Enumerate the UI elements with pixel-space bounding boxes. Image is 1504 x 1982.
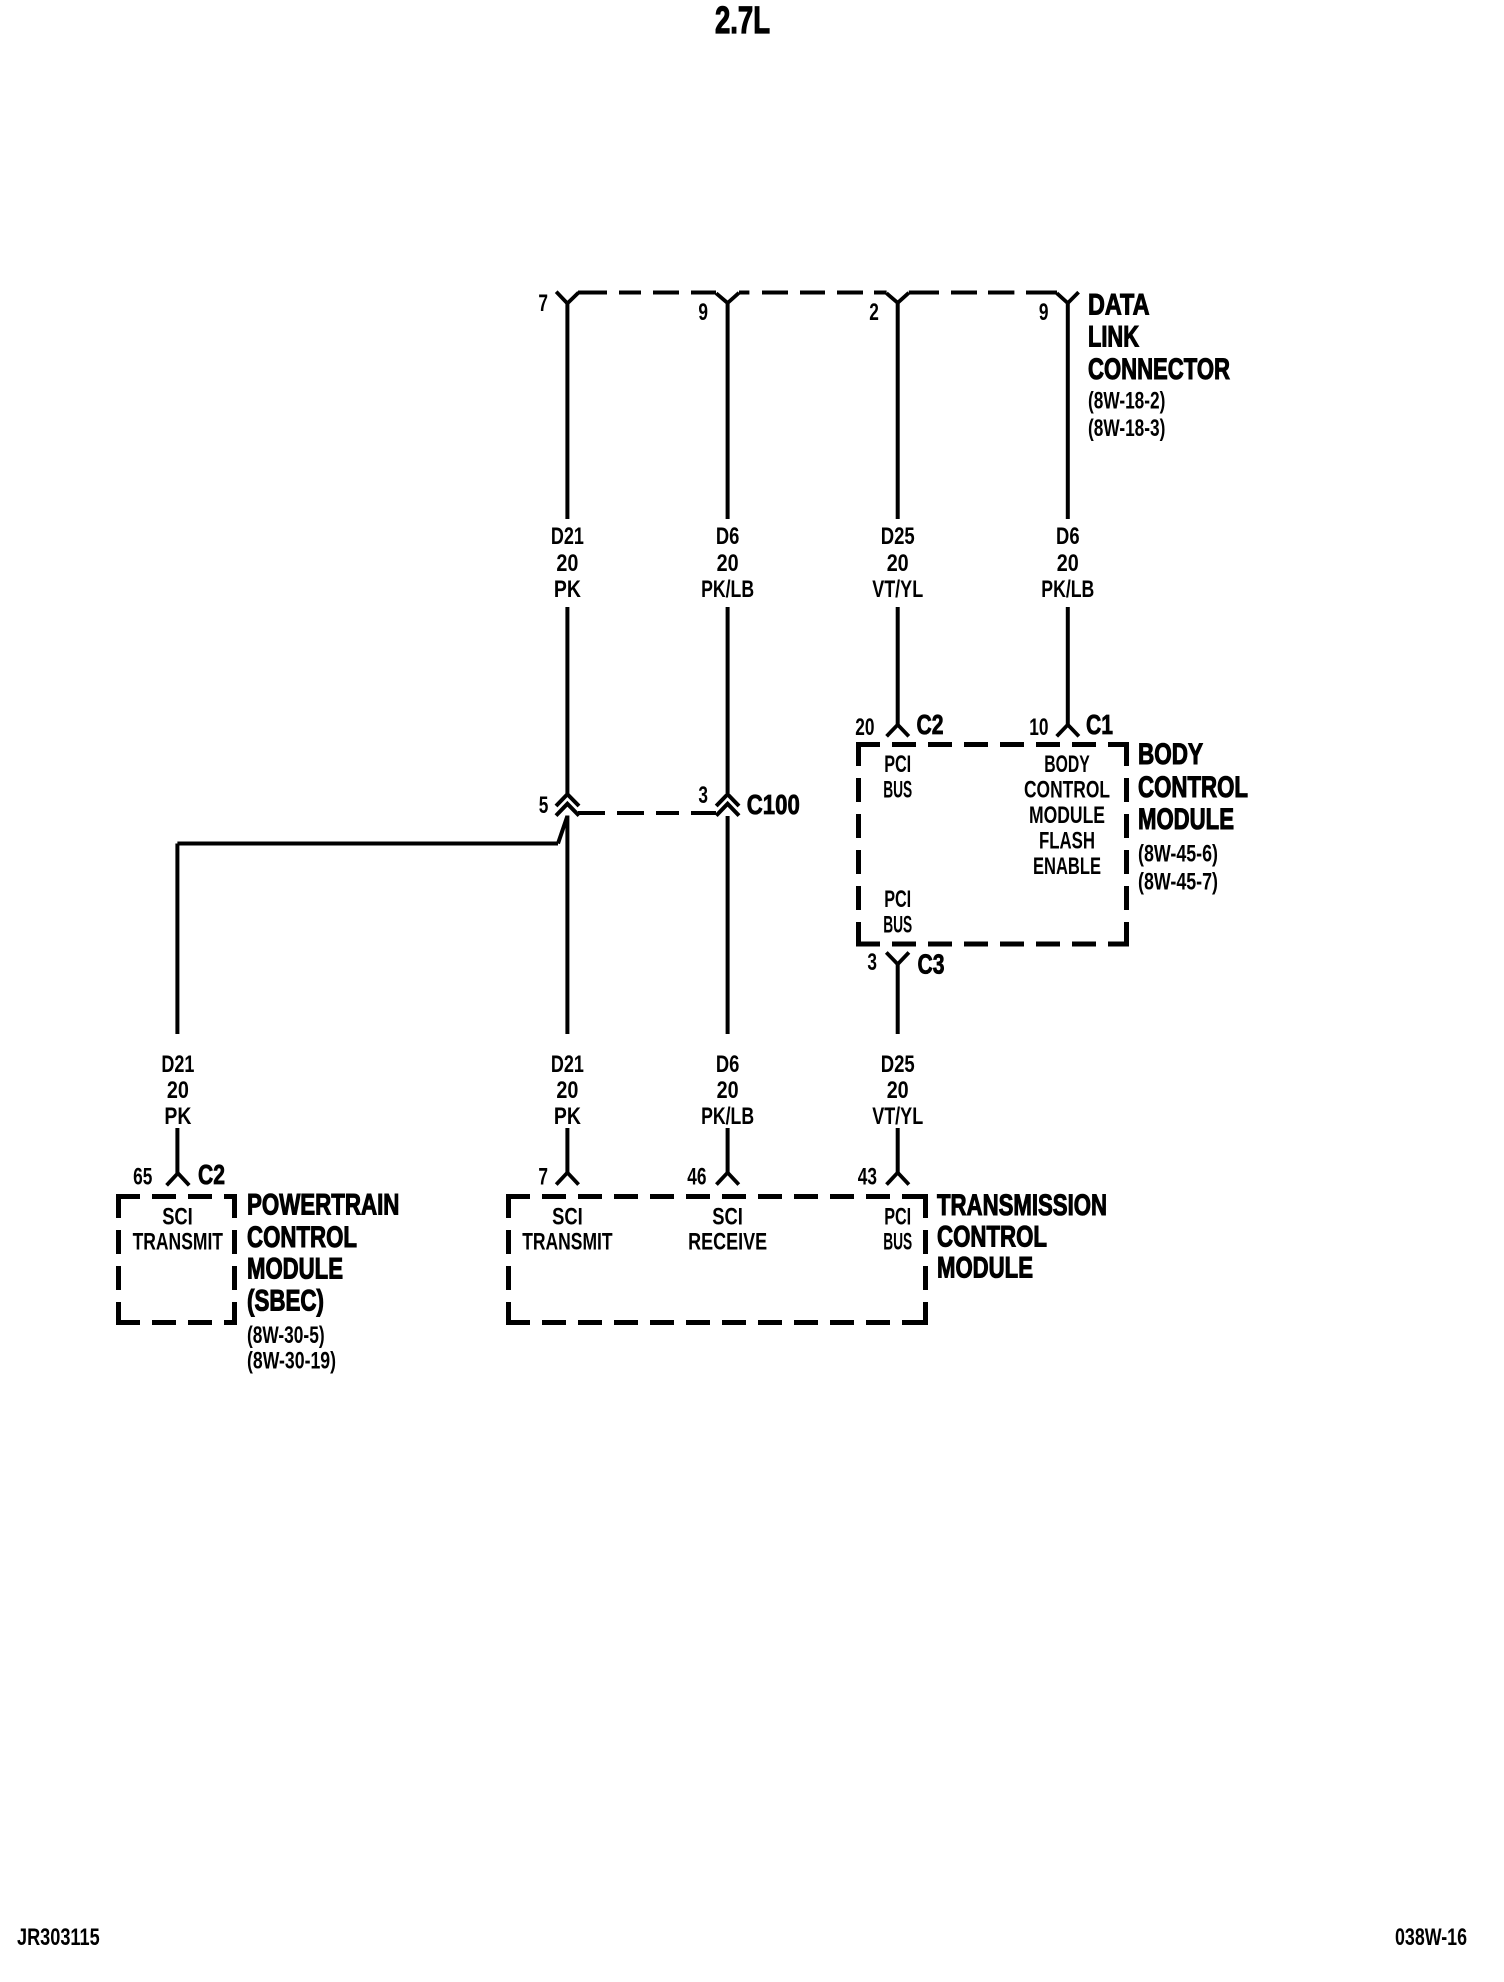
- svg-text:(SBEC): (SBEC): [247, 1285, 324, 1318]
- svg-text:TRANSMIT: TRANSMIT: [133, 1229, 224, 1256]
- svg-text:ENABLE: ENABLE: [1033, 853, 1101, 880]
- svg-text:BODY: BODY: [1138, 738, 1203, 771]
- svg-text:2: 2: [869, 299, 879, 326]
- svg-text:D6: D6: [716, 523, 740, 550]
- svg-text:FLASH: FLASH: [1039, 828, 1095, 855]
- connector fork, DLC pin 7: [556, 292, 578, 304]
- svg-text:CONTROL: CONTROL: [937, 1221, 1047, 1254]
- svg-text:CONTROL: CONTROL: [1024, 777, 1110, 804]
- svg-text:BUS: BUS: [883, 1229, 912, 1256]
- svg-text:PK/LB: PK/LB: [1041, 576, 1094, 603]
- svg-text:C100: C100: [747, 789, 800, 820]
- connector fork, PCM C2 pin 65: [167, 1173, 190, 1185]
- module box: BODY CONTROL MODULE (dashed): [856, 742, 1129, 747]
- svg-text:20: 20: [556, 1077, 578, 1104]
- svg-text:20: 20: [556, 550, 578, 577]
- svg-text:CONTROL: CONTROL: [1138, 771, 1248, 804]
- svg-text:(8W-18-3): (8W-18-3): [1088, 415, 1165, 442]
- svg-text:C1: C1: [1086, 709, 1113, 740]
- in-line connector C100 (wire D6, cavity 3): [716, 794, 739, 815]
- svg-text:MODULE: MODULE: [937, 1252, 1033, 1285]
- svg-text:9: 9: [698, 299, 708, 326]
- svg-text:VT/YL: VT/YL: [872, 576, 923, 603]
- svg-text:D6: D6: [716, 1051, 740, 1078]
- svg-text:46: 46: [687, 1164, 706, 1191]
- svg-text:10: 10: [1029, 714, 1048, 741]
- wire D6 (to C100): [726, 607, 730, 793]
- wire D25 (to TCM pin 43): [896, 1128, 900, 1173]
- wire D6 (to TCM pin 46): [726, 1128, 730, 1173]
- svg-text:BUS: BUS: [883, 777, 912, 804]
- svg-text:MODULE: MODULE: [247, 1253, 343, 1286]
- module box: TRANSMISSION CONTROL MODULE (dashed): [506, 1194, 928, 1199]
- wire D21 20 PK (upper): [565, 303, 569, 519]
- svg-text:20: 20: [855, 714, 874, 741]
- svg-text:TRANSMIT: TRANSMIT: [522, 1229, 613, 1256]
- connector fork, TCM pin 43: [887, 1173, 909, 1185]
- wire D25 20 VT/YL (upper): [896, 303, 900, 519]
- svg-text:D6: D6: [1056, 523, 1080, 550]
- connector fork, DLC pin 2: [887, 293, 909, 303]
- connector fork, BCM C3 pin 3: [886, 952, 909, 964]
- svg-text:(8W-18-2): (8W-18-2): [1088, 388, 1165, 415]
- wire D21 branch (to PCM pin 65): [175, 1128, 179, 1173]
- svg-text:038W-16: 038W-16: [1395, 1924, 1467, 1951]
- wire D21 branch (horizontal run to PCM): [177, 842, 558, 846]
- svg-text:7: 7: [538, 1164, 548, 1191]
- wire D21 branch (vertical drop): [175, 844, 179, 1035]
- svg-text:C3: C3: [918, 949, 945, 980]
- svg-text:PK/LB: PK/LB: [701, 576, 754, 603]
- svg-text:JR303115: JR303115: [17, 1924, 100, 1951]
- svg-text:(8W-30-5): (8W-30-5): [247, 1322, 325, 1349]
- connector fork, DLC pin 9: [716, 293, 739, 303]
- module box: POWERTRAIN CONTROL MODULE (dashed): [116, 1194, 237, 1199]
- svg-text:BODY: BODY: [1044, 751, 1090, 778]
- svg-text:20: 20: [887, 1077, 909, 1104]
- svg-text:C2: C2: [198, 1159, 225, 1190]
- svg-text:MODULE: MODULE: [1029, 802, 1105, 829]
- svg-text:RECEIVE: RECEIVE: [688, 1229, 767, 1256]
- svg-text:D25: D25: [881, 523, 915, 550]
- svg-text:MODULE: MODULE: [1138, 803, 1234, 836]
- svg-text:20: 20: [167, 1077, 189, 1104]
- wire D6 20 PK/LB (upper): [726, 303, 730, 519]
- svg-text:CONTROL: CONTROL: [247, 1221, 357, 1254]
- svg-text:D21: D21: [551, 1051, 584, 1078]
- svg-text:PCI: PCI: [884, 1204, 911, 1231]
- dashed connector tie line C100: [578, 811, 605, 815]
- svg-text:9: 9: [1039, 299, 1049, 326]
- svg-text:(8W-45-7): (8W-45-7): [1138, 869, 1218, 896]
- svg-text:(8W-30-19): (8W-30-19): [247, 1348, 336, 1375]
- svg-text:3: 3: [867, 949, 877, 976]
- svg-text:SCI: SCI: [552, 1204, 583, 1231]
- connector fork, TCM pin 46: [716, 1173, 738, 1185]
- svg-text:PK: PK: [554, 576, 582, 603]
- svg-text:65: 65: [133, 1164, 152, 1191]
- svg-text:PK: PK: [164, 1103, 192, 1130]
- connector fork, DLC pin 9: [1057, 292, 1079, 303]
- svg-text:D25: D25: [881, 1051, 915, 1078]
- wire D6 (below C100): [726, 816, 730, 1034]
- wire branch junction (D21 splice to PCM): [558, 816, 567, 844]
- svg-text:20: 20: [717, 1077, 739, 1104]
- svg-text:3: 3: [698, 782, 708, 809]
- svg-text:D21: D21: [161, 1051, 194, 1078]
- wire D25 (below BCM C3): [896, 964, 900, 1034]
- svg-text:SCI: SCI: [162, 1204, 193, 1231]
- svg-text:PK/LB: PK/LB: [701, 1103, 754, 1130]
- wire D21 (to C100): [565, 607, 569, 794]
- svg-text:C2: C2: [917, 709, 944, 740]
- svg-text:VT/YL: VT/YL: [872, 1103, 923, 1130]
- svg-text:D21: D21: [551, 523, 584, 550]
- connector fork, TCM pin 7: [556, 1173, 578, 1185]
- dashed harness line (DLC): [578, 291, 607, 295]
- svg-text:20: 20: [887, 550, 909, 577]
- wire D21 (to TCM pin 7): [565, 1128, 569, 1173]
- svg-text:LINK: LINK: [1088, 321, 1139, 354]
- svg-text:BUS: BUS: [883, 912, 912, 939]
- wire D21 (below C100): [565, 816, 569, 1035]
- svg-text:2.7L: 2.7L: [715, 0, 770, 42]
- svg-text:5: 5: [539, 792, 549, 819]
- wire D25 (to BCM C2): [896, 607, 900, 725]
- in-line connector C100 (wire D21, cavity 5): [556, 794, 579, 815]
- svg-text:43: 43: [858, 1164, 877, 1191]
- wire D6 (to BCM C1): [1066, 607, 1070, 725]
- connector fork, BCM C2 pin 20: [887, 725, 909, 737]
- svg-text:20: 20: [717, 550, 739, 577]
- wire D6 20 PK/LB (upper): [1066, 303, 1070, 519]
- svg-text:PCI: PCI: [884, 751, 911, 778]
- connector fork, BCM C1 pin 10: [1057, 725, 1079, 737]
- svg-text:(8W-45-6): (8W-45-6): [1138, 841, 1218, 868]
- svg-text:20: 20: [1057, 550, 1079, 577]
- svg-text:SCI: SCI: [712, 1204, 743, 1231]
- svg-text:TRANSMISSION: TRANSMISSION: [937, 1189, 1107, 1222]
- svg-text:CONNECTOR: CONNECTOR: [1088, 353, 1230, 386]
- svg-text:7: 7: [538, 290, 548, 317]
- svg-text:DATA: DATA: [1088, 288, 1150, 321]
- svg-text:POWERTRAIN: POWERTRAIN: [247, 1189, 399, 1222]
- svg-text:PCI: PCI: [884, 886, 911, 913]
- svg-text:PK: PK: [554, 1103, 582, 1130]
